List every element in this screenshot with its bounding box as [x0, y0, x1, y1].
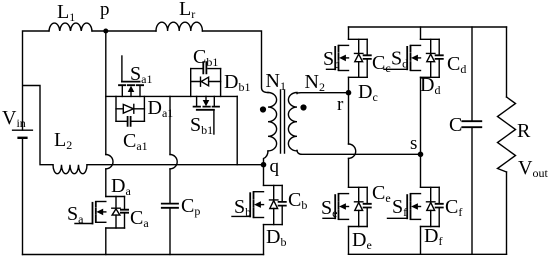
svg-text:r: r — [337, 94, 344, 115]
battery Vin top plate — [13, 129, 33, 131]
resistor R — [498, 97, 516, 172]
ladder sides Cb1/Db1 — [191, 69, 221, 97]
svg-text:Db: Db — [266, 226, 286, 249]
transistor Sf with body diode and capacitor Cf — [388, 187, 444, 226]
diode Db1 — [191, 77, 221, 86]
ladder sides Da1/Ca1 — [116, 96, 144, 121]
svg-text:L1: L1 — [57, 1, 75, 24]
wire Sf source to bottom rail — [420, 227, 422, 255]
diode Da1 — [116, 104, 144, 113]
svg-text:Cb1: Cb1 — [193, 46, 218, 69]
inductor L1 — [49, 23, 92, 31]
wire hop r-line over s wire — [349, 144, 356, 158]
svg-text:Sb1: Sb1 — [190, 114, 213, 137]
node s — [418, 152, 424, 158]
svg-text:Vout: Vout — [518, 157, 548, 180]
wire Sc source to node r — [348, 77, 350, 144]
svg-text:R: R — [517, 120, 531, 142]
svg-text:Cc: Cc — [372, 52, 391, 75]
inductor Lr — [156, 22, 202, 31]
wire bridge top rail — [349, 26, 507, 28]
transformer core — [281, 90, 285, 153]
transistor Sb1 — [194, 96, 219, 134]
wire Lr to transformer N1 top — [203, 31, 269, 93]
svg-text:q: q — [270, 156, 280, 177]
battery Vin bottom plate — [17, 137, 27, 139]
svg-text:s: s — [410, 133, 417, 154]
wire q down to Sb — [263, 166, 265, 185]
wire snubber rail from p-line — [106, 95, 237, 97]
transistor Sd with body diode and capacitor Cd — [384, 39, 444, 77]
wire R to bottom rail — [506, 172, 508, 254]
svg-text:Sa: Sa — [67, 203, 84, 226]
svg-text:Da: Da — [111, 175, 131, 198]
wire branch Vin+ to L2 — [23, 86, 53, 165]
transistor Sc with body diode and capacitor Cc — [327, 39, 372, 77]
wire C to bottom rail — [471, 128, 473, 254]
wire bottom rail secondary — [349, 253, 507, 255]
svg-text:Ca: Ca — [130, 207, 149, 230]
svg-text:C: C — [449, 114, 462, 136]
svg-text:p: p — [100, 0, 110, 20]
svg-text:Cd: Cd — [447, 53, 466, 76]
dot N2 polarity — [300, 104, 306, 110]
svg-text:Sd: Sd — [391, 48, 408, 71]
capacitor Cb1 — [191, 61, 221, 74]
inductor L2 — [53, 165, 87, 174]
wire r-line to Se — [348, 158, 350, 187]
node q — [261, 162, 267, 168]
wire Cp-line from snubber rail — [169, 96, 171, 154]
wire Sb source to bottom rail — [263, 225, 265, 255]
svg-text:Dc: Dc — [358, 81, 378, 104]
wire top rail corner to R — [506, 27, 508, 97]
wire Cp-line to capacitor — [169, 169, 171, 203]
svg-text:Ce: Ce — [372, 182, 391, 205]
svg-text:Sa1: Sa1 — [130, 63, 152, 86]
svg-text:De: De — [352, 229, 372, 252]
wire N2 top to node r — [297, 92, 349, 95]
svg-text:Db1: Db1 — [224, 71, 250, 94]
wire Sa source to bottom rail — [105, 228, 107, 255]
svg-text:N2: N2 — [305, 71, 325, 94]
transistor Sa with body diode and capacitor Ca — [75, 197, 129, 229]
wire Sd source to node s — [420, 77, 422, 187]
wire hop p-line over L2 wire — [106, 155, 113, 169]
wire p-line lower — [105, 169, 107, 197]
wire top rail to Sc — [348, 27, 350, 39]
winding N2 — [288, 93, 297, 151]
winding N1 — [268, 93, 277, 151]
svg-text:N1: N1 — [266, 70, 286, 93]
svg-text:Df: Df — [424, 225, 442, 248]
wire L2 to node q — [87, 164, 264, 166]
svg-text:Sc: Sc — [323, 48, 339, 71]
wire L1 to node p to Lr — [92, 30, 156, 32]
node r — [346, 90, 352, 96]
capacitor Cp — [161, 204, 179, 208]
svg-text:Cb: Cb — [288, 189, 307, 212]
node p — [103, 29, 108, 34]
capacitor C — [461, 121, 482, 127]
svg-text:Cf: Cf — [445, 196, 462, 219]
wire C branch — [471, 27, 473, 120]
dot N1 polarity — [260, 106, 266, 112]
svg-text:L2: L2 — [54, 129, 72, 152]
wire p-line upper (p to Sa drain) — [105, 33, 107, 155]
wire N2 bottom to node s — [297, 150, 421, 154]
wire Vin- down to bottom rail — [22, 139, 24, 254]
transistor Sb with body diode and capacitor Cb — [232, 185, 287, 224]
wire Se source to bottom rail — [348, 227, 350, 255]
svg-text:Cp: Cp — [181, 195, 200, 218]
wire top rail to Sd — [420, 27, 422, 39]
capacitor Ca1 — [116, 116, 144, 127]
svg-text:Lr: Lr — [179, 0, 195, 21]
transistor Sa1 — [119, 56, 143, 96]
svg-text:Ca1: Ca1 — [123, 130, 148, 153]
transistor Se with body diode and capacitor Ce — [323, 187, 372, 226]
wire top-left from Vin+ to L1 — [23, 31, 50, 130]
wire Cp to bottom rail — [169, 208, 171, 254]
wire snubber rail to q — [236, 96, 238, 164]
wire N1 bottom to node q — [264, 151, 269, 164]
wire hop Cp-line over q wire — [170, 155, 177, 169]
svg-text:Sf: Sf — [392, 196, 407, 219]
svg-text:Sb: Sb — [234, 196, 251, 219]
wire bottom rail primary — [23, 254, 264, 256]
